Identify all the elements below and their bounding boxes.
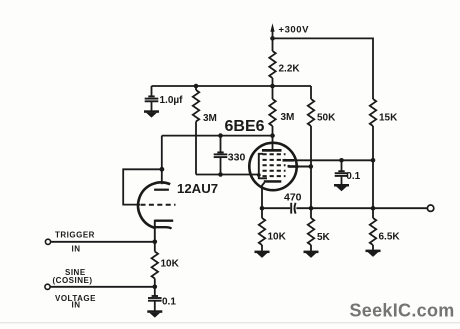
wire 10K to sine node xyxy=(154,279,156,287)
wire +300V down to top rail xyxy=(272,28,274,51)
terminal TRIGGER IN xyxy=(45,239,50,244)
node 6.5K xyxy=(371,206,376,211)
capacitor 470 xyxy=(291,203,295,214)
svg-text:1.0µf: 1.0µf xyxy=(160,95,184,106)
wire feedback box xyxy=(123,169,162,204)
terminal output xyxy=(427,205,433,211)
node B+ rail / 2.2K / 3M xyxy=(270,84,275,89)
wire 15K down to output line xyxy=(372,126,374,208)
node 15K / grid line xyxy=(371,158,376,163)
svg-text:10K: 10K xyxy=(161,258,180,269)
capacitor 0.1 (right) xyxy=(335,171,349,176)
wire sine in xyxy=(50,286,155,288)
wire 10K (6BE6) top xyxy=(261,208,263,218)
capacitor 0.1 (input) xyxy=(148,296,162,301)
svg-text:330: 330 xyxy=(228,151,246,163)
ground (10K) xyxy=(255,251,270,258)
svg-text:+300V: +300V xyxy=(279,24,310,35)
wire to 10K xyxy=(154,242,156,252)
svg-text:15K: 15K xyxy=(379,112,398,123)
svg-text:3M: 3M xyxy=(281,112,295,123)
12AU7 plate xyxy=(154,189,169,191)
tube 6BE6 envelope xyxy=(249,143,296,190)
svg-text:0.1: 0.1 xyxy=(162,297,176,308)
wire top rail to 15K xyxy=(273,38,374,99)
capacitor 1.0uf xyxy=(145,96,159,101)
wire to 0.1 cap xyxy=(154,287,156,297)
6BE6 screen bracket xyxy=(259,154,267,179)
wire 6BE6 grid stub lower xyxy=(289,165,299,168)
resistor 10K (12AU7) xyxy=(152,252,158,279)
6BE6 grid G4 (dashed) xyxy=(263,159,286,161)
node 3M left top xyxy=(194,84,199,89)
svg-text:6.5K: 6.5K xyxy=(379,231,401,242)
svg-text:2.2K: 2.2K xyxy=(279,63,301,74)
wire 6BE6 grid stub upper xyxy=(283,159,295,162)
tube 12AU7 envelope xyxy=(138,182,170,227)
resistor 2.2K xyxy=(269,51,275,78)
wire 6.5K top xyxy=(372,208,374,218)
node stub lower xyxy=(309,164,314,169)
scan artifact line xyxy=(0,322,460,323)
svg-text:6BE6: 6BE6 xyxy=(225,118,265,135)
ground (input 0.1) xyxy=(147,310,162,317)
6BE6 grid G2 (dashed) xyxy=(263,170,286,172)
svg-text:3M: 3M xyxy=(203,113,217,124)
12AU7 grid (dashed) xyxy=(141,204,176,206)
node 330 top xyxy=(218,133,223,138)
6BE6 grid G5 (dashed) xyxy=(263,153,286,155)
6BE6 plate xyxy=(262,149,282,152)
6BE6 grid G1 (dashed) xyxy=(263,175,286,177)
svg-text:IN: IN xyxy=(72,244,81,253)
ground (1.0uf) xyxy=(144,110,159,117)
wire 10K to ground xyxy=(261,245,263,251)
svg-text:(COSINE): (COSINE) xyxy=(53,276,93,285)
12AU7 cathode xyxy=(154,220,156,242)
wire trigger in xyxy=(51,241,155,243)
node trigger / cathode / 10K xyxy=(153,240,158,245)
wire 3M left down to feedback rail xyxy=(195,122,197,175)
svg-text:12AU7: 12AU7 xyxy=(177,181,218,196)
capacitor 330 xyxy=(214,152,228,157)
wire 5K to ground xyxy=(310,245,312,251)
wire 0.1 to ground xyxy=(341,177,343,185)
svg-text:TRIGGER: TRIGGER xyxy=(55,231,95,240)
6BE6 grid G3 (dashed) xyxy=(263,164,286,166)
wire output line (cont) xyxy=(296,207,427,209)
wire 3M right to plate rail and 6BE6 plate xyxy=(272,126,274,150)
wire B+ rail horizontal xyxy=(152,85,312,87)
wire to 3M left xyxy=(195,86,197,90)
wire 12AU7 plate lead xyxy=(161,136,163,185)
wire 330 top lead xyxy=(220,136,222,153)
node 5K xyxy=(309,206,314,211)
wire 1.0uf to ground xyxy=(151,102,153,111)
wire grid rail to 6BE6 bracket xyxy=(196,174,259,176)
node cathode / output xyxy=(260,206,265,211)
wire 50K column xyxy=(310,86,312,99)
svg-text:470: 470 xyxy=(284,191,302,203)
wire 6BE6 cathode lead xyxy=(262,183,265,209)
node sine / 10K / 0.1 xyxy=(153,285,158,290)
wire plate rail horizontal xyxy=(162,135,273,137)
resistor 3M (right) xyxy=(269,99,275,126)
svg-text:0.1: 0.1 xyxy=(346,171,360,182)
node plate rail xyxy=(270,133,275,138)
wire 2.2K to B+ rail xyxy=(272,78,274,86)
wire 50K down to output line xyxy=(310,126,312,208)
resistor 6.5K xyxy=(370,218,376,245)
resistor 10K (6BE6) xyxy=(259,218,265,245)
wire output line xyxy=(262,207,290,209)
wire 330 bottom lead xyxy=(220,158,222,175)
svg-text:SeekIC.com: SeekIC.com xyxy=(350,301,455,321)
ground (5K) xyxy=(304,251,319,258)
wire 5K top xyxy=(310,208,312,218)
node bracket junction xyxy=(257,173,261,177)
ground (6.5K) xyxy=(366,250,381,257)
resistor 15K xyxy=(370,99,376,126)
node 0.1 branch xyxy=(339,158,344,163)
svg-text:IN: IN xyxy=(72,301,81,310)
svg-text:50K: 50K xyxy=(317,112,336,123)
+300V supply terminal arrow xyxy=(270,23,274,32)
node 12AU7 plate / feedback xyxy=(160,167,165,172)
ground (right 0.1) xyxy=(334,184,349,191)
resistor 5K xyxy=(308,218,314,245)
svg-text:5K: 5K xyxy=(317,232,331,243)
wire 6.5K to ground xyxy=(372,245,374,250)
wire 3M right top xyxy=(272,86,274,99)
resistor 50K xyxy=(308,99,314,126)
6BE6 cathode xyxy=(264,180,282,183)
wire 1.0uf drop xyxy=(151,86,153,97)
wire 0.1 to ground xyxy=(154,301,156,310)
node 330 bottom xyxy=(218,172,223,177)
resistor 3M (left) xyxy=(193,90,199,122)
terminal SINE IN xyxy=(45,284,50,289)
wire 0.1 drop xyxy=(341,160,343,171)
svg-text:10K: 10K xyxy=(268,231,287,242)
node top rail junction xyxy=(270,36,275,41)
